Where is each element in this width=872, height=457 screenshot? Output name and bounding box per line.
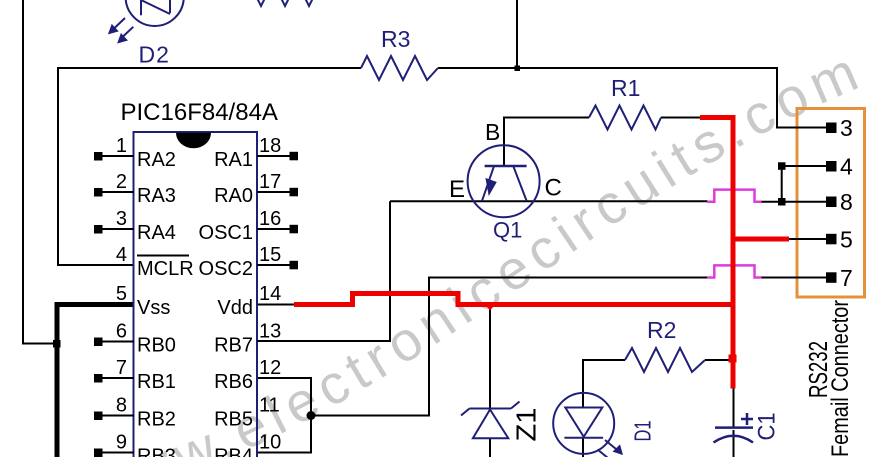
LED D2: [110, 0, 184, 42]
junction node RB5: [307, 411, 316, 420]
wire RB5 to pin7 line: [311, 278, 708, 416]
magenta hop 1: [707, 190, 762, 202]
IC notch: [176, 133, 211, 149]
red wire to pin 5: [733, 237, 789, 242]
svg-text:RB7: RB7: [214, 335, 253, 357]
red junction to Z1: [484, 303, 497, 311]
zener diode Z1: [461, 402, 520, 439]
svg-text:6: 6: [116, 321, 127, 343]
svg-text:3: 3: [116, 208, 127, 230]
svg-text:MCLR: MCLR: [137, 258, 194, 280]
svg-text:RB6: RB6: [214, 371, 253, 393]
svg-text:11: 11: [259, 395, 280, 417]
svg-text:5: 5: [840, 227, 853, 253]
wire Vdd stub: [257, 304, 294, 306]
red Vdd wire: [294, 294, 733, 305]
svg-text:7: 7: [116, 357, 127, 379]
resistor R2: [625, 348, 705, 372]
svg-text:B: B: [485, 119, 500, 145]
svg-text:RB3: RB3: [137, 446, 176, 457]
wire pin4-pin8 tie: [782, 166, 826, 202]
red junction to R2: [729, 355, 737, 363]
svg-text:RA3: RA3: [137, 185, 176, 207]
red power net R1 to C1: [700, 118, 733, 389]
svg-text:E: E: [449, 176, 465, 203]
wire R2 left lead to D1: [583, 360, 625, 407]
junction node pin4 tie top: [778, 162, 786, 170]
wire C1 top: [733, 388, 735, 427]
connector pin squares: [826, 123, 837, 283]
svg-text:10: 10: [259, 432, 281, 454]
IC left pin stubs and squares: [102, 156, 134, 453]
svg-text:17: 17: [259, 171, 281, 193]
wire R3 right to junction to pin3 corner: [438, 68, 826, 128]
wire MCLR riser and top wire: [58, 68, 361, 265]
wire hop1 right to pin 8: [761, 201, 826, 203]
svg-text:8: 8: [840, 189, 853, 215]
svg-text:13: 13: [259, 321, 281, 343]
svg-text:R2: R2: [647, 317, 676, 343]
resistor partial top: [243, 0, 315, 6]
LED D1: [553, 393, 621, 457]
svg-text:1: 1: [116, 135, 127, 157]
magenta hop 2: [707, 265, 762, 277]
resistor R3: [361, 56, 438, 80]
svg-text:14: 14: [259, 283, 281, 305]
wire base B of Q1 to R1: [504, 118, 589, 167]
wire Vss link from left rail: [23, 343, 58, 345]
svg-text:PIC16F84/84A: PIC16F84/84A: [121, 99, 278, 126]
svg-text:R1: R1: [611, 75, 640, 101]
svg-text:18: 18: [259, 135, 281, 157]
IC right pin stubs and squares: [257, 156, 290, 341]
svg-text:8: 8: [116, 395, 127, 417]
svg-text:Vdd: Vdd: [217, 297, 253, 319]
svg-text:D2: D2: [139, 42, 170, 68]
svg-text:OSC1: OSC1: [199, 222, 253, 244]
svg-text:RA0: RA0: [214, 185, 253, 207]
svg-text:RA1: RA1: [214, 149, 253, 171]
svg-text:16: 16: [259, 208, 281, 230]
resistor R1: [589, 106, 661, 130]
svg-text:R3: R3: [381, 26, 410, 52]
wire RB6 RB5 RB4 rail: [256, 378, 311, 453]
wire R2 right lead: [705, 359, 731, 361]
wire Z1 bottom: [489, 439, 491, 457]
capacitor C1: [714, 413, 754, 443]
svg-text:RB5: RB5: [214, 409, 253, 431]
svg-text:9: 9: [116, 432, 127, 454]
svg-text:7: 7: [840, 265, 853, 291]
wire pin 5 black part: [788, 238, 826, 240]
svg-text:OSC2: OSC2: [199, 258, 253, 280]
RS232 connector box: [797, 109, 865, 298]
wire Vss thick: [57, 305, 134, 457]
watermark www.electronicecircuits.com: [55, 70, 872, 457]
wire hop2 right to pin 7: [761, 277, 826, 279]
junction node pin8 tie bottom: [778, 198, 786, 206]
svg-text:4: 4: [840, 154, 853, 180]
transistor Q1: [468, 145, 540, 217]
IC U1 PIC16F84 body: [134, 132, 258, 457]
svg-text:RA2: RA2: [137, 149, 176, 171]
junction node Vss: [53, 340, 61, 348]
junction node R3: [515, 66, 521, 72]
wire D1 bottom: [582, 438, 584, 457]
wire left rail: [23, 0, 54, 344]
svg-text:Q1: Q1: [493, 218, 522, 243]
svg-text:RB1: RB1: [137, 371, 176, 393]
svg-text:C1: C1: [754, 413, 781, 441]
MCLR overline: [137, 255, 189, 257]
svg-text:Femail Connector: Femail Connector: [827, 300, 854, 457]
svg-text:5: 5: [116, 283, 127, 305]
svg-text:RA4: RA4: [137, 222, 176, 244]
svg-text:12: 12: [259, 357, 281, 379]
svg-text:2: 2: [116, 171, 127, 193]
wire R1 right lead: [661, 117, 701, 119]
svg-text:RB2: RB2: [137, 409, 176, 431]
svg-text:RB4: RB4: [214, 446, 253, 457]
svg-text:RB0: RB0: [137, 335, 176, 357]
svg-text:15: 15: [259, 244, 281, 266]
wire vertical into junction from top: [516, 0, 518, 68]
wire emitter drop to RB7 pin 13: [256, 201, 390, 341]
svg-text:3: 3: [840, 115, 853, 141]
svg-text:C: C: [545, 175, 562, 202]
wire emitter-collector horizontal: [390, 200, 708, 202]
svg-text:4: 4: [116, 244, 127, 266]
svg-text:D1: D1: [630, 421, 656, 442]
svg-text:Z1: Z1: [511, 408, 542, 442]
wire Z1 top: [489, 306, 491, 408]
svg-text:Vss: Vss: [137, 297, 170, 319]
